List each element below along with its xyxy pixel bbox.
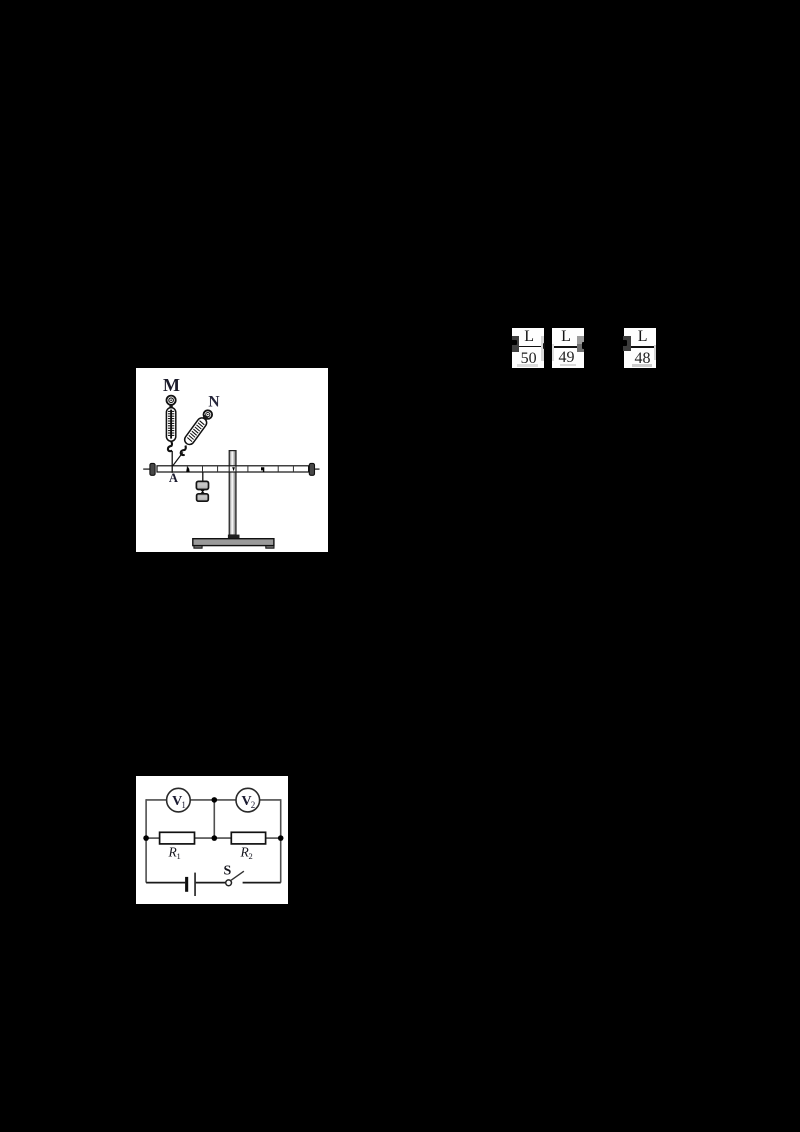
svg-text:2: 2: [248, 851, 252, 861]
svg-text:S: S: [223, 863, 231, 878]
svg-text:N: N: [208, 394, 219, 411]
svg-text:2: 2: [250, 800, 255, 810]
svg-text:A: A: [168, 471, 177, 485]
svg-text:1: 1: [181, 800, 186, 810]
svg-text:1: 1: [176, 851, 180, 861]
svg-text:M: M: [163, 375, 180, 395]
